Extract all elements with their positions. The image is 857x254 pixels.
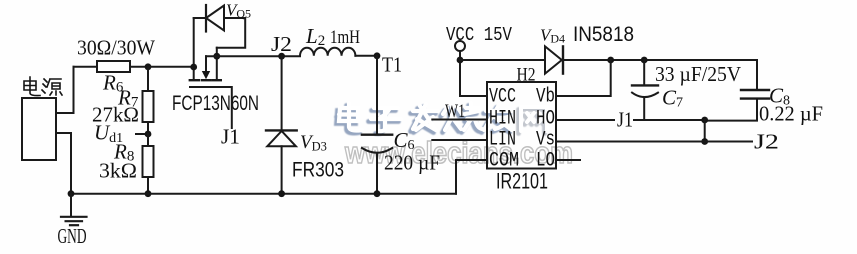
wire box lower stub to ground rail (56, 133, 71, 194)
drain junction dot (213, 53, 220, 60)
gate junction dot (190, 64, 197, 71)
svg-text:L2: L2 (305, 24, 325, 49)
drain vertical (216, 48, 218, 79)
junction dot R8/rail (145, 190, 152, 197)
svg-text:J2: J2 (754, 130, 779, 154)
wire R8 to ground rail (147, 177, 149, 194)
svg-text:VD3: VD3 (300, 132, 327, 154)
pin stub HIN (432, 119, 487, 121)
wire Vb branch (556, 60, 611, 96)
wire top rail to R6 (74, 66, 98, 68)
svg-text:HO: HO (536, 108, 555, 131)
junction dot VCC (457, 57, 464, 64)
transistor FCP13N60N channel: gate foot (190, 79, 199, 81)
svg-text:C7: C7 (662, 86, 683, 111)
wire VCC terminal down and to VCC pin (460, 51, 487, 96)
drain rail to node J2 (206, 55, 300, 57)
body arrow stem (205, 56, 207, 71)
svg-text:H2: H2 (517, 65, 536, 86)
svg-text:VQ5: VQ5 (226, 1, 251, 21)
capacitor C7 33uF/25V (electrolytic) (632, 60, 658, 120)
wire J2 down to VD3 (281, 56, 283, 130)
svg-text:1mH: 1mH (330, 27, 360, 48)
node B junction dot (Ud1 node) (145, 131, 152, 138)
wire R6 to node A (130, 66, 148, 68)
svg-text:T1: T1 (382, 53, 402, 77)
pin stub COM to rail (456, 160, 487, 194)
svg-text:0.22 µF: 0.22 µF (759, 102, 823, 126)
svg-text:GND: GND (58, 224, 87, 248)
svg-text:IN5818: IN5818 (573, 23, 634, 46)
IC U1 IR2101 box (487, 82, 556, 169)
resistor R8 body (143, 146, 154, 177)
svg-text:30Ω/30W: 30Ω/30W (77, 36, 155, 60)
Vs line to J2 (556, 141, 752, 143)
wire node A down to R7 (147, 67, 149, 91)
junction dot VD3/rail (278, 190, 285, 197)
wire box to top rail (56, 67, 74, 113)
resistor R7 body (143, 91, 154, 122)
pin stub LO (556, 159, 580, 161)
capacitor C6 220uF (electrolytic) (362, 135, 392, 194)
drain foot (213, 79, 221, 81)
HO line to J1 (556, 119, 614, 121)
svg-text:3kΩ: 3kΩ (99, 159, 137, 183)
svg-text:220 µF: 220 µF (384, 151, 440, 175)
wire T1 down to C6 (376, 56, 378, 134)
svg-text:VD4: VD4 (540, 26, 565, 46)
body arrow head (202, 71, 210, 79)
junction dot C7 branch (641, 57, 648, 64)
svg-text:J1: J1 (221, 125, 240, 149)
diode VD4 (545, 46, 563, 73)
ground rail (bottom bus) (71, 193, 456, 195)
ground symbol (61, 194, 87, 226)
svg-text:Vs: Vs (536, 129, 555, 152)
svg-text:FCP13N60N: FCP13N60N (172, 92, 259, 115)
capacitor C8 0.22uF (705, 60, 769, 121)
inductor L2 (300, 48, 355, 56)
junction dot C6/rail (374, 190, 381, 197)
diode VD3 cathode bar (266, 129, 297, 131)
wire R7 to node B (147, 122, 149, 134)
node J2 junction dot (278, 53, 285, 60)
junction dot GND (68, 190, 75, 197)
junction dot C7-/C8- (701, 117, 708, 124)
svg-text:Vb: Vb (536, 86, 555, 109)
wire node B to R8 (147, 134, 149, 146)
svg-text:33 µF/25V: 33 µF/25V (655, 62, 741, 86)
svg-text:LIN: LIN (489, 129, 516, 152)
svg-text:FR303: FR303 (292, 159, 344, 182)
node A junction dot (145, 63, 152, 70)
wire VCC to VD4 (460, 59, 545, 61)
wire node A to gate (148, 66, 194, 68)
svg-text:VCC: VCC (489, 86, 516, 109)
power source box (22, 98, 56, 160)
body foot (202, 79, 211, 81)
watermark url www.elecfans.com (344, 135, 573, 170)
wire VD3 to rail (281, 146, 283, 193)
wire VD4 to C8 corner (563, 59, 757, 61)
node T1 junction dot (374, 52, 381, 59)
svg-text:J2: J2 (271, 32, 292, 56)
diode VQ5 (194, 5, 246, 48)
wire C7- to node (634, 119, 705, 121)
wire L2 to T1 (355, 55, 377, 57)
transistor Q5 gate vertical (193, 18, 195, 79)
svg-text:J1: J1 (617, 108, 633, 132)
watermark logo 电子发烧友 (337, 103, 548, 134)
source line to J1 (190, 87, 232, 128)
svg-text:VCC 15V: VCC 15V (446, 24, 512, 46)
label 电源 (power source) (24, 77, 62, 96)
svg-text:HIN: HIN (489, 108, 516, 131)
resistor R6 (30ohm/30W) body (97, 61, 130, 72)
diode VD3 triangle (267, 131, 296, 146)
svg-text:IR2101: IR2101 (496, 169, 548, 194)
wire down to Vs line (704, 120, 706, 142)
junction dot Vb branch (607, 57, 614, 64)
junction dot on Vs line (701, 138, 708, 145)
VCC terminal (455, 41, 465, 51)
pin stub LIN (432, 139, 487, 141)
